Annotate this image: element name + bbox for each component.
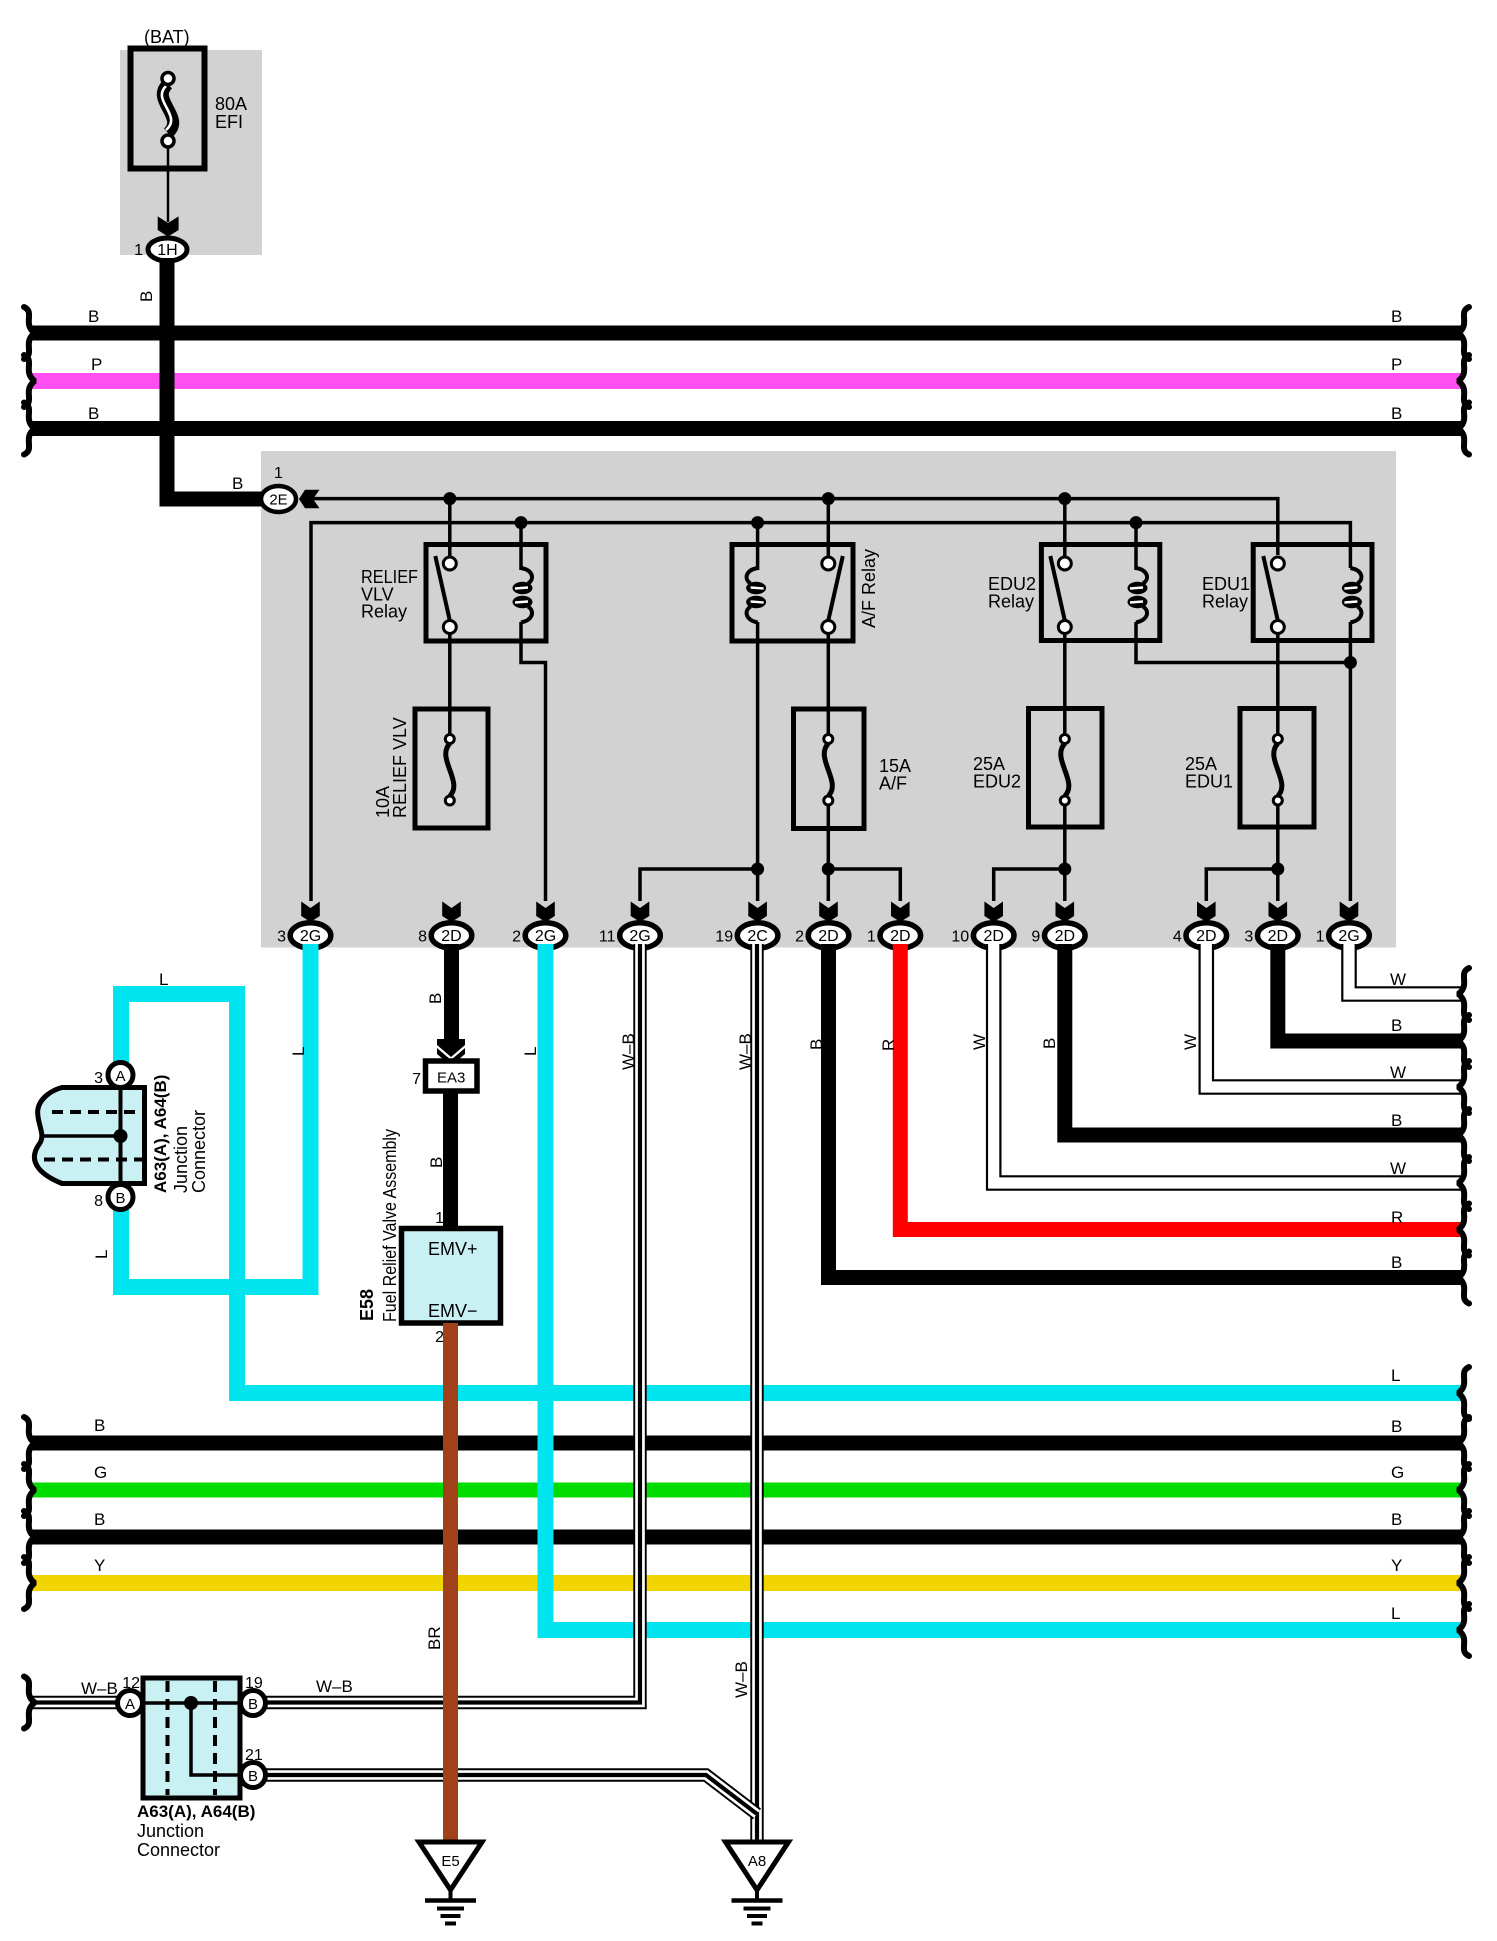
- wire branch to 2G pin 11: [640, 869, 758, 901]
- arrow into connector 2D pin 1: [891, 902, 910, 923]
- svg-text:B: B: [1391, 1111, 1402, 1130]
- arrow into connector 2C pin 19: [748, 902, 767, 923]
- wire B from connector 1H to relay block pin 2E: [137, 258, 261, 499]
- svg-text:B: B: [115, 1190, 125, 1207]
- wire W-B from junction connector A63 pin 21 merging to ground A8: [266, 1677, 757, 1814]
- svg-text:W–B: W–B: [316, 1677, 353, 1696]
- svg-text:4: 4: [1173, 929, 1182, 946]
- wire RELIEF VLV relay switch to fuse 10A: [448, 633, 452, 735]
- connector pin 3 of 2G: [277, 923, 331, 948]
- connector pin 1 of 2G: [1316, 923, 1370, 948]
- wire to RELIEF VLV relay coil: [519, 523, 523, 570]
- svg-text:2G: 2G: [629, 928, 650, 945]
- connector pin 1 of 1H: [134, 238, 187, 261]
- svg-text:(BAT): (BAT): [144, 27, 190, 47]
- svg-text:B: B: [94, 1510, 105, 1529]
- svg-text:A: A: [115, 1068, 125, 1085]
- arrow into connector EA3: [437, 1039, 465, 1057]
- svg-text:Junction: Junction: [171, 1126, 191, 1193]
- svg-text:RELIEF VLV: RELIEF VLV: [390, 717, 410, 818]
- svg-text:L: L: [159, 970, 168, 989]
- relay block background: [261, 451, 1396, 948]
- wire to RELIEF VLV relay switch: [448, 499, 452, 557]
- wire EDU2 relay coil to EDU1 coil line: [1136, 622, 1350, 663]
- svg-text:2: 2: [512, 929, 521, 946]
- wire to EDU2 relay coil: [1134, 523, 1138, 570]
- svg-text:B: B: [1391, 1253, 1402, 1272]
- node junction 25A EDU1 fuse branch: [1271, 863, 1284, 876]
- svg-text:E58: E58: [357, 1289, 377, 1321]
- wire B from 2D pin 9 to right edge: [1040, 944, 1469, 1161]
- svg-text:Connector: Connector: [189, 1110, 209, 1193]
- wire B from EA3 to E58 pin 1: [427, 1091, 451, 1228]
- wire R from 2D pin 1 to right edge: [879, 944, 1469, 1256]
- svg-text:3: 3: [1244, 929, 1253, 946]
- svg-text:1: 1: [134, 242, 143, 259]
- connector pin 9 of 2D: [1031, 923, 1085, 948]
- fuse 15A A/F: [794, 709, 865, 829]
- svg-text:2D: 2D: [1055, 928, 1075, 945]
- wire to A/F relay switch: [827, 499, 831, 557]
- svg-text:B: B: [88, 307, 99, 326]
- svg-text:W–B: W–B: [736, 1033, 755, 1070]
- arrow into connector 2D pin 8: [442, 902, 461, 923]
- svg-text:R: R: [879, 1039, 898, 1051]
- junction connector pin A (12): [118, 1675, 143, 1716]
- arrow from 2E into relay block: [299, 490, 320, 509]
- junction connector pin B (21): [241, 1747, 266, 1788]
- relay A/F Relay: [732, 545, 853, 642]
- svg-text:B: B: [426, 993, 445, 1004]
- arrow into connector 2D pin 9: [1056, 902, 1075, 923]
- junction connector A63(A), A64(B) (upper): [34, 1088, 144, 1184]
- svg-text:P: P: [1391, 355, 1402, 374]
- connector pin 1 of 2E: [261, 465, 296, 512]
- connector pin 19 of 2C: [715, 923, 778, 948]
- wire fuse 15A to 2D pin 2: [827, 805, 831, 901]
- svg-text:B: B: [94, 1416, 105, 1435]
- svg-text:B: B: [137, 291, 156, 302]
- svg-text:W: W: [970, 1034, 989, 1050]
- svg-text:A: A: [125, 1696, 135, 1713]
- wire fuse 25A EDU2 to 2D pin 9: [1063, 805, 1067, 901]
- svg-text:EFI: EFI: [215, 112, 243, 132]
- svg-text:EMV−: EMV−: [428, 1301, 478, 1321]
- svg-text:R: R: [1391, 1208, 1403, 1227]
- svg-text:8: 8: [94, 1193, 103, 1210]
- svg-text:W: W: [1390, 970, 1406, 989]
- arrow into connector 2D pin 4: [1197, 902, 1216, 923]
- connector pin 4 of 2D: [1173, 923, 1227, 948]
- wire feed line to relay coils and 2G pin 3: [311, 523, 1350, 901]
- svg-text:L: L: [1391, 1366, 1400, 1385]
- svg-text:W–B: W–B: [81, 1679, 118, 1698]
- svg-text:1: 1: [435, 1210, 444, 1227]
- connector pin 11 of 2G: [599, 923, 660, 948]
- svg-text:EMV+: EMV+: [428, 1239, 478, 1259]
- wire bus P: [24, 355, 1469, 407]
- node junction EDU coil lines: [1344, 656, 1357, 669]
- svg-text:Fuel Relief Valve Assembly: Fuel Relief Valve Assembly: [380, 1129, 400, 1322]
- svg-text:L: L: [92, 1250, 111, 1259]
- svg-text:A63(A), A64(B): A63(A), A64(B): [151, 1075, 170, 1193]
- wire EDU1 relay switch to fuse 25A EDU1: [1276, 633, 1280, 735]
- svg-text:9: 9: [1031, 929, 1040, 946]
- svg-text:Relay: Relay: [361, 602, 407, 622]
- svg-text:B: B: [1391, 404, 1402, 423]
- svg-text:L: L: [1391, 1604, 1400, 1623]
- node junction on coil line at EDU2 relay coil: [1130, 516, 1143, 529]
- svg-text:7: 7: [412, 1071, 421, 1088]
- svg-text:2G: 2G: [300, 928, 321, 945]
- wire EDU1 relay coil to 2G pin 1: [1349, 622, 1353, 901]
- node junction 15A fuse branch: [822, 863, 835, 876]
- connector pin 8 of 2D: [418, 923, 472, 948]
- connector pin 10 of 2D: [951, 923, 1014, 948]
- wire W-B from 2G pin 11 to junction connector A63 pin 19: [266, 944, 640, 1703]
- svg-text:10: 10: [951, 929, 969, 946]
- svg-text:2: 2: [435, 1329, 444, 1346]
- arrow into connector 2D pin 3: [1269, 902, 1288, 923]
- ground E5: [419, 1842, 482, 1890]
- arrow into connector 1H: [158, 216, 179, 236]
- svg-text:W–B: W–B: [732, 1661, 751, 1698]
- svg-text:B: B: [1391, 1016, 1402, 1035]
- svg-text:G: G: [1391, 1463, 1404, 1482]
- wire from fuse 80A to connector 1H: [167, 147, 170, 222]
- ground A8: [726, 1842, 789, 1890]
- node junction 25A EDU2 fuse branch: [1058, 863, 1071, 876]
- wire branch to 2D pin 1: [828, 869, 900, 901]
- svg-text:A8: A8: [748, 1853, 766, 1870]
- wire W-B from 2C pin 19 to ground A8: [732, 944, 757, 1842]
- svg-text:A/F Relay: A/F Relay: [859, 549, 879, 628]
- arrow into connector 2G pin 1: [1340, 902, 1359, 923]
- svg-text:8: 8: [418, 929, 427, 946]
- svg-text:80A: 80A: [215, 94, 247, 114]
- svg-text:2D: 2D: [890, 928, 910, 945]
- wire bus B (second): [24, 403, 1469, 455]
- svg-text:B: B: [1391, 1510, 1402, 1529]
- svg-text:EDU2: EDU2: [973, 772, 1021, 792]
- junction connector pin A (3): [94, 1063, 133, 1088]
- wire feed line from 2E to EDU1 relay switch: [313, 499, 1278, 555]
- svg-text:Y: Y: [1391, 1556, 1402, 1575]
- fuse 80A EFI: [131, 49, 205, 169]
- svg-text:EDU1: EDU1: [1185, 772, 1233, 792]
- wire bus B (mid): [24, 1416, 1469, 1469]
- wire fuse 25A EDU1 to 2D pin 3: [1276, 805, 1280, 901]
- svg-text:Relay: Relay: [1202, 592, 1248, 612]
- connector pin 1 of 2D: [867, 923, 921, 948]
- wire bus G: [24, 1463, 1469, 1516]
- svg-text:2D: 2D: [441, 928, 461, 945]
- svg-text:B: B: [248, 1768, 258, 1785]
- wire branch to 2D pin 10: [994, 869, 1065, 901]
- svg-text:W: W: [1390, 1159, 1406, 1178]
- svg-text:2G: 2G: [1338, 928, 1359, 945]
- wire B from 2D pin 2 to right edge: [807, 944, 1469, 1304]
- svg-text:W: W: [1390, 1063, 1406, 1082]
- wire A/F relay coil down to 2C pin 19: [756, 622, 760, 901]
- wire W-B from left edge to junction connector A63 pin 12: [24, 1677, 118, 1729]
- connector pin 2 of 2G: [512, 923, 566, 948]
- wire W from 2G pin 1 to right edge: [1349, 944, 1469, 1020]
- svg-text:1H: 1H: [157, 242, 177, 259]
- wire A/F relay switch to fuse 15A: [827, 633, 831, 735]
- wire B from 2D pin 3 to right edge: [1278, 944, 1469, 1067]
- junction connector pin B (19): [241, 1675, 266, 1716]
- wire bus B (top): [24, 307, 1469, 359]
- relay RELIEF VLV Relay: [426, 545, 546, 642]
- node junction on coil line at RELIEF VLV relay coil: [515, 516, 528, 529]
- svg-text:2C: 2C: [747, 928, 767, 945]
- node junction on feed line at A/F relay switch: [822, 492, 835, 505]
- svg-text:19: 19: [245, 1675, 263, 1692]
- svg-text:21: 21: [245, 1747, 263, 1764]
- connector pin 3 of 2D: [1244, 923, 1298, 948]
- svg-text:1: 1: [1316, 929, 1325, 946]
- svg-text:2D: 2D: [818, 928, 838, 945]
- wire W from 2D pin 10 to right edge: [970, 944, 1469, 1209]
- svg-text:E5: E5: [441, 1853, 459, 1870]
- svg-text:2D: 2D: [1268, 928, 1288, 945]
- node junction A/F coil branch: [751, 863, 764, 876]
- connector pin 2 of 2D: [795, 923, 849, 948]
- svg-text:Relay: Relay: [988, 592, 1034, 612]
- wire to EDU2 relay switch: [1063, 499, 1067, 557]
- svg-text:Y: Y: [94, 1556, 105, 1575]
- wire EDU2 relay switch to fuse 25A EDU2: [1063, 633, 1067, 735]
- wire L from junction connector A63 pin A to right edge (L bus): [121, 970, 1469, 1419]
- wire B from 2D pin 8 to connector EA3: [426, 944, 452, 1040]
- wire branch to 2D pin 4: [1206, 869, 1278, 901]
- svg-text:B: B: [88, 404, 99, 423]
- fuse 25A EDU2: [1029, 709, 1103, 828]
- svg-text:1: 1: [274, 465, 283, 482]
- arrow into connector 2G pin 2: [536, 902, 555, 923]
- svg-text:A/F: A/F: [879, 774, 907, 794]
- wire RELIEF VLV relay coil to 2G pin 2: [521, 622, 546, 901]
- component E58 Fuel Relief Valve Assembly: [402, 1229, 501, 1324]
- arrow into connector 2D pin 10: [984, 902, 1003, 923]
- wire bus Y: [24, 1556, 1469, 1609]
- svg-text:L: L: [289, 1047, 308, 1056]
- junction connector pin B (8): [94, 1185, 133, 1211]
- wire L from 2G pin 2 to right edge (lower L bus): [521, 944, 1469, 1656]
- svg-text:A63(A), A64(B): A63(A), A64(B): [137, 1802, 255, 1821]
- wire bus B (lower): [24, 1510, 1469, 1563]
- wire to A/F relay coil: [756, 523, 760, 570]
- connector pin 7 of EA3: [412, 1061, 477, 1091]
- svg-text:B: B: [248, 1696, 258, 1713]
- fuse 25A EDU1: [1240, 709, 1314, 828]
- relay EDU2 Relay: [1041, 545, 1159, 641]
- node junction on coil line at A/F relay coil: [751, 516, 764, 529]
- fuse block background (top): [120, 50, 262, 255]
- svg-text:EA3: EA3: [437, 1070, 465, 1087]
- svg-text:11: 11: [599, 929, 616, 946]
- svg-text:19: 19: [715, 929, 733, 946]
- svg-text:3: 3: [94, 1070, 103, 1087]
- svg-text:W–B: W–B: [619, 1033, 638, 1070]
- wire BR from E58 pin 2 to ground E5: [425, 1323, 451, 1842]
- svg-text:Junction: Junction: [137, 1821, 204, 1841]
- svg-text:2E: 2E: [269, 492, 287, 509]
- svg-text:B: B: [1040, 1038, 1059, 1049]
- arrow into connector 2G pin 11: [631, 902, 650, 923]
- svg-text:2D: 2D: [983, 928, 1003, 945]
- relay EDU1 Relay: [1253, 545, 1372, 641]
- svg-text:2: 2: [795, 929, 804, 946]
- svg-text:B: B: [1391, 1417, 1402, 1436]
- svg-text:G: G: [94, 1463, 107, 1482]
- svg-text:12: 12: [122, 1675, 140, 1692]
- svg-text:BR: BR: [425, 1626, 444, 1650]
- wire L from 2G pin 3 to junction connector A63 pin 8: [92, 944, 311, 1287]
- svg-text:P: P: [91, 355, 102, 374]
- svg-text:W: W: [1181, 1034, 1200, 1050]
- svg-text:2D: 2D: [1196, 928, 1216, 945]
- svg-text:3: 3: [277, 929, 286, 946]
- svg-text:B: B: [1391, 307, 1402, 326]
- svg-text:L: L: [521, 1047, 540, 1056]
- arrow into connector 2G pin 3: [301, 902, 320, 923]
- svg-text:2G: 2G: [535, 928, 556, 945]
- node junction on feed line at EDU2 relay switch: [1058, 492, 1071, 505]
- svg-text:1: 1: [867, 929, 876, 946]
- junction connector A63(A), A64(B) (lower): [143, 1678, 240, 1798]
- svg-text:B: B: [232, 474, 243, 493]
- wire W from 2D pin 4 to right edge: [1181, 944, 1469, 1113]
- svg-text:B: B: [427, 1157, 446, 1168]
- svg-text:Connector: Connector: [137, 1840, 220, 1860]
- node junction on feed line at RELIEF VLV relay switch: [443, 492, 456, 505]
- fuse 10A RELIEF VLV: [415, 709, 488, 828]
- svg-text:B: B: [807, 1039, 826, 1050]
- arrow into connector 2D pin 2: [819, 902, 838, 923]
